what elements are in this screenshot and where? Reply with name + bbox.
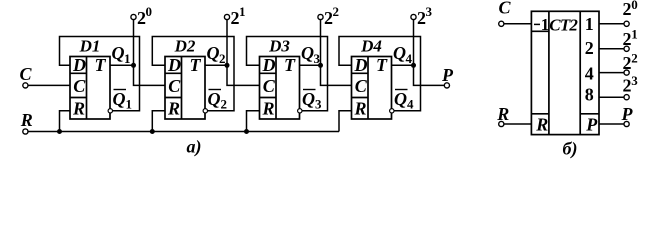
- label Q3: [301, 43, 321, 66]
- wire output 2^1: [599, 48, 624, 50]
- svg-text:4: 4: [585, 64, 594, 84]
- wire: Q1 to C input of D2: [134, 65, 166, 85]
- svg-text:4: 4: [406, 51, 413, 66]
- wire: Q1 output stub: [110, 64, 134, 66]
- wire output 2^0: [599, 23, 624, 25]
- svg-text:T: T: [190, 55, 202, 75]
- svg-text:D: D: [167, 55, 181, 75]
- svg-text:3: 3: [631, 73, 638, 88]
- svg-text:D: D: [262, 55, 276, 75]
- flip-flop D1: [70, 37, 110, 120]
- svg-text:R: R: [20, 110, 33, 130]
- label Q&#773;4: [394, 89, 414, 112]
- wire: Q2 up to terminal 2^1: [226, 20, 228, 66]
- wire: Q4 output stub: [392, 64, 414, 66]
- label Q2: [207, 43, 226, 66]
- svg-text:D3: D3: [268, 37, 290, 56]
- junction on R bus at D3: [244, 129, 249, 134]
- svg-text:2: 2: [221, 97, 228, 112]
- wire: feedback Q&#773;4 to D input of D4: [339, 37, 421, 111]
- label Q4: [393, 43, 413, 66]
- svg-text:2: 2: [333, 4, 340, 19]
- svg-text:D4: D4: [360, 37, 382, 56]
- svg-text:C: C: [73, 76, 86, 96]
- svg-text:D: D: [354, 55, 368, 75]
- output terminal 2^2: [318, 4, 339, 28]
- svg-text:Q: Q: [208, 89, 221, 109]
- svg-text:2: 2: [631, 51, 638, 66]
- output terminal 2^0: [131, 4, 152, 28]
- wire: R bus riser to D3: [247, 111, 260, 132]
- svg-text:P: P: [441, 65, 454, 85]
- svg-text:T: T: [376, 55, 388, 75]
- svg-text:R: R: [167, 99, 180, 119]
- wire: R bus riser to D1: [60, 111, 71, 132]
- svg-text:Q: Q: [112, 43, 125, 63]
- svg-text:3: 3: [426, 4, 433, 19]
- svg-text:D1: D1: [79, 37, 101, 56]
- input terminal C: [20, 64, 33, 88]
- inversion bubble Q&#773;2: [203, 109, 207, 113]
- counter CT2 body: [531, 11, 599, 134]
- wire: feedback Q&#773;3 to D input of D3: [247, 37, 328, 111]
- output terminal P (part a): [441, 65, 454, 88]
- wire: Q3 to C input of D4: [321, 65, 352, 85]
- wire: Q3 up to terminal 2^2: [320, 20, 322, 66]
- node Q1: [131, 63, 136, 68]
- svg-text:0: 0: [631, 0, 638, 12]
- wire C to CT2: [504, 23, 532, 25]
- svg-text:1: 1: [585, 14, 594, 34]
- svg-text:Q: Q: [113, 89, 126, 109]
- svg-text:R: R: [72, 99, 85, 119]
- wire C input to D1: [28, 84, 70, 86]
- svg-text:Q: Q: [302, 89, 315, 109]
- wire R bus: [28, 131, 339, 133]
- output terminal 2^1: [224, 4, 245, 28]
- svg-text:R: R: [496, 104, 509, 124]
- svg-text:T: T: [95, 55, 107, 75]
- label Q&#773;1: [113, 89, 133, 112]
- svg-text:R: R: [262, 99, 275, 119]
- svg-text:CT2: CT2: [549, 16, 578, 35]
- svg-text:2: 2: [623, 29, 632, 49]
- input terminal R: [20, 110, 33, 134]
- svg-text:Q: Q: [207, 43, 220, 63]
- svg-text:C: C: [499, 0, 512, 18]
- output terminal 2^3: [623, 73, 639, 100]
- node Q2: [225, 63, 230, 68]
- wire: feedback Q&#773;2 to D input of D2: [152, 37, 234, 111]
- inversion bubble Q&#773;4: [390, 109, 394, 113]
- output terminal 2^2: [623, 51, 638, 76]
- node Q4: [411, 63, 416, 68]
- wire: R bus riser to D4: [339, 111, 352, 132]
- input terminal R (part b): [496, 104, 509, 127]
- output terminal 2^0: [623, 0, 638, 26]
- wire: feedback Q&#773;1 to D input of D1: [60, 37, 140, 111]
- svg-text:R: R: [354, 99, 367, 119]
- wire output 2^3: [599, 96, 624, 98]
- svg-text:1: 1: [631, 27, 638, 42]
- svg-text:1: 1: [126, 97, 133, 112]
- svg-text:1: 1: [239, 4, 246, 19]
- svg-text:Q: Q: [301, 43, 314, 63]
- svg-text:8: 8: [585, 85, 594, 105]
- svg-text:R: R: [535, 115, 548, 135]
- svg-text:P: P: [621, 104, 634, 124]
- wire: Q4 up to terminal 2^3: [413, 20, 415, 66]
- wire output 2^2: [599, 72, 624, 74]
- svg-text:3: 3: [314, 51, 321, 66]
- svg-text:2: 2: [623, 75, 632, 95]
- wire output P: [599, 123, 624, 125]
- output terminal 2^1: [623, 27, 638, 52]
- svg-text:C: C: [263, 76, 276, 96]
- svg-text:Q: Q: [394, 89, 407, 109]
- svg-text:0: 0: [146, 4, 153, 19]
- flip-flop D2: [165, 37, 205, 120]
- label Q&#773;3: [302, 89, 322, 112]
- svg-text:а): а): [187, 137, 202, 158]
- svg-text:2: 2: [219, 51, 226, 66]
- wire: Q4 to output P: [414, 65, 445, 85]
- output terminal 2^3: [411, 4, 433, 28]
- wire: R bus riser to D2: [152, 111, 165, 132]
- junction on R bus at D2: [150, 129, 155, 134]
- flip-flop D4: [352, 37, 392, 120]
- junction on R bus at D1: [57, 129, 62, 134]
- svg-text:3: 3: [315, 97, 322, 112]
- inversion bubble Q&#773;3: [298, 109, 302, 113]
- svg-text:1: 1: [541, 15, 550, 34]
- svg-text:C: C: [168, 76, 181, 96]
- inversion bubble Q&#773;1: [108, 109, 112, 113]
- label Q1: [112, 43, 131, 66]
- svg-text:б): б): [563, 139, 578, 160]
- svg-text:C: C: [20, 64, 33, 84]
- svg-text:D2: D2: [174, 37, 196, 56]
- wire: Q2 output stub: [205, 64, 227, 66]
- svg-text:T: T: [284, 55, 296, 75]
- wire R to CT2: [504, 123, 532, 125]
- node Q3: [318, 63, 323, 68]
- svg-text:C: C: [355, 76, 368, 96]
- output terminal P: [621, 104, 634, 127]
- flip-flop D3: [260, 37, 300, 120]
- svg-text:2: 2: [623, 0, 632, 19]
- wire: Q1 up to terminal 2^0: [133, 20, 135, 66]
- svg-text:2: 2: [623, 53, 632, 73]
- svg-text:4: 4: [407, 97, 414, 112]
- wire: Q2 to C input of D3: [227, 65, 260, 85]
- svg-text:1: 1: [124, 51, 131, 66]
- svg-text:2: 2: [585, 38, 594, 58]
- svg-text:D: D: [72, 55, 86, 75]
- label Q&#773;2: [208, 89, 228, 112]
- wire: Q3 output stub: [300, 64, 321, 66]
- svg-text:Q: Q: [393, 43, 406, 63]
- svg-text:P: P: [585, 115, 598, 135]
- input terminal C (part b): [499, 0, 512, 26]
